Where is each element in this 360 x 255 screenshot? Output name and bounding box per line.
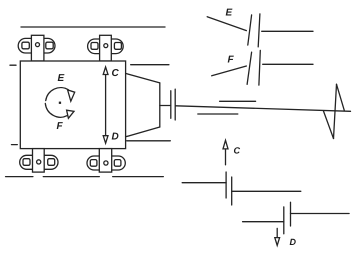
vertical double arrow C-D inside block — [105, 74, 107, 136]
engine block — [20, 61, 125, 149]
diagram D joint bar 2 — [290, 202, 292, 226]
diagram F output line — [263, 63, 313, 65]
wire lower frame rail right segment — [127, 140, 171, 142]
rotation center dot — [59, 102, 61, 104]
wire bottom frame rail segment 3 — [113, 176, 164, 178]
diagram C joint bar 1 — [225, 172, 227, 198]
transmission trapezoid top edge — [126, 73, 160, 83]
svg-text:C: C — [112, 68, 120, 79]
wire top frame rail — [21, 26, 165, 28]
arrowhead up (C) — [103, 67, 108, 75]
rotation arc upper (engine roll E) — [46, 88, 69, 101]
wire bottom frame rail segment 2 — [43, 176, 99, 178]
diagram E joint bar 2 — [258, 14, 260, 47]
engine mount lower-left — [20, 149, 58, 173]
rotation arc lower arrowhead — [67, 110, 74, 118]
diagram C joint bar 2 — [231, 177, 233, 205]
engine mount lower-right — [87, 149, 125, 173]
diagram F joint bar 1 — [247, 52, 252, 84]
rotation arc lower (engine roll F) — [45, 103, 67, 117]
diagram E slanted input line — [207, 17, 246, 31]
diagram D joint bar 1 — [283, 207, 285, 234]
diagram D down arrowhead — [275, 238, 280, 246]
propeller lower blade edge — [324, 111, 334, 138]
diagram C up arrow shaft — [225, 149, 227, 165]
wire lower frame rail left dash — [12, 144, 18, 146]
wire bottom frame rail segment 1 — [6, 176, 33, 178]
propeller near-vertical blade line — [334, 84, 337, 138]
transmission trapezoid bottom edge — [126, 127, 160, 137]
wire transmission output stub — [160, 105, 171, 107]
diagram D right line — [291, 213, 350, 215]
diagram F slanted input line — [212, 66, 247, 76]
transmission trapezoid right edge — [159, 83, 161, 127]
engine mount upper-left — [18, 35, 55, 61]
svg-text:D: D — [112, 132, 119, 143]
diagram F joint bar 2 — [259, 50, 260, 85]
slip joint upper line — [220, 100, 256, 102]
u-joint bar 1 — [170, 91, 172, 119]
engine mount upper-right — [88, 35, 124, 61]
diagram C right line — [232, 190, 301, 192]
diagram C left line — [182, 182, 226, 184]
slip joint lower line — [198, 113, 238, 115]
diagram D left line — [243, 221, 284, 223]
wire upper frame rail left dash — [10, 64, 16, 66]
svg-text:F: F — [228, 55, 235, 66]
diagram E joint bar 1 — [248, 15, 252, 45]
wire upper frame rail right segment — [131, 64, 169, 66]
diagram D down arrow shaft — [276, 228, 278, 237]
svg-text:E: E — [58, 73, 65, 84]
svg-text:F: F — [57, 121, 64, 132]
arrowhead down (D) — [103, 136, 108, 144]
propeller upper blade edge — [337, 84, 345, 110]
u-joint bar 2 — [174, 89, 176, 120]
svg-text:D: D — [290, 237, 297, 247]
svg-text:C: C — [234, 146, 241, 156]
rotation arc upper arrowhead — [68, 90, 75, 101]
diagram C up arrowhead — [223, 140, 228, 149]
diagram E output line — [262, 30, 313, 32]
svg-text:E: E — [226, 8, 233, 19]
propeller shaft line — [176, 106, 351, 112]
